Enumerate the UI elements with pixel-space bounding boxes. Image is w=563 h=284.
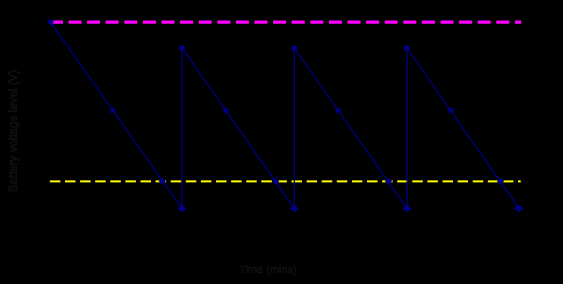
magenta upper threshold dashed line: [50, 20, 521, 23]
wide diamond marker at final bottom vertex: [515, 204, 524, 212]
diamond markers at ramp tops: [47, 18, 54, 25]
diamond markers at yellow-line crossings: [159, 178, 166, 185]
svg-text:Time (mins): Time (mins): [239, 264, 297, 276]
blue sawtooth line: [50, 22, 519, 209]
svg-text:Battery voltage level (V): Battery voltage level (V): [8, 70, 20, 192]
yellow lower threshold dashed line: [50, 180, 521, 182]
diamond markers at ramp bottoms: [178, 205, 186, 213]
star markers mid-ramp: [109, 106, 117, 114]
